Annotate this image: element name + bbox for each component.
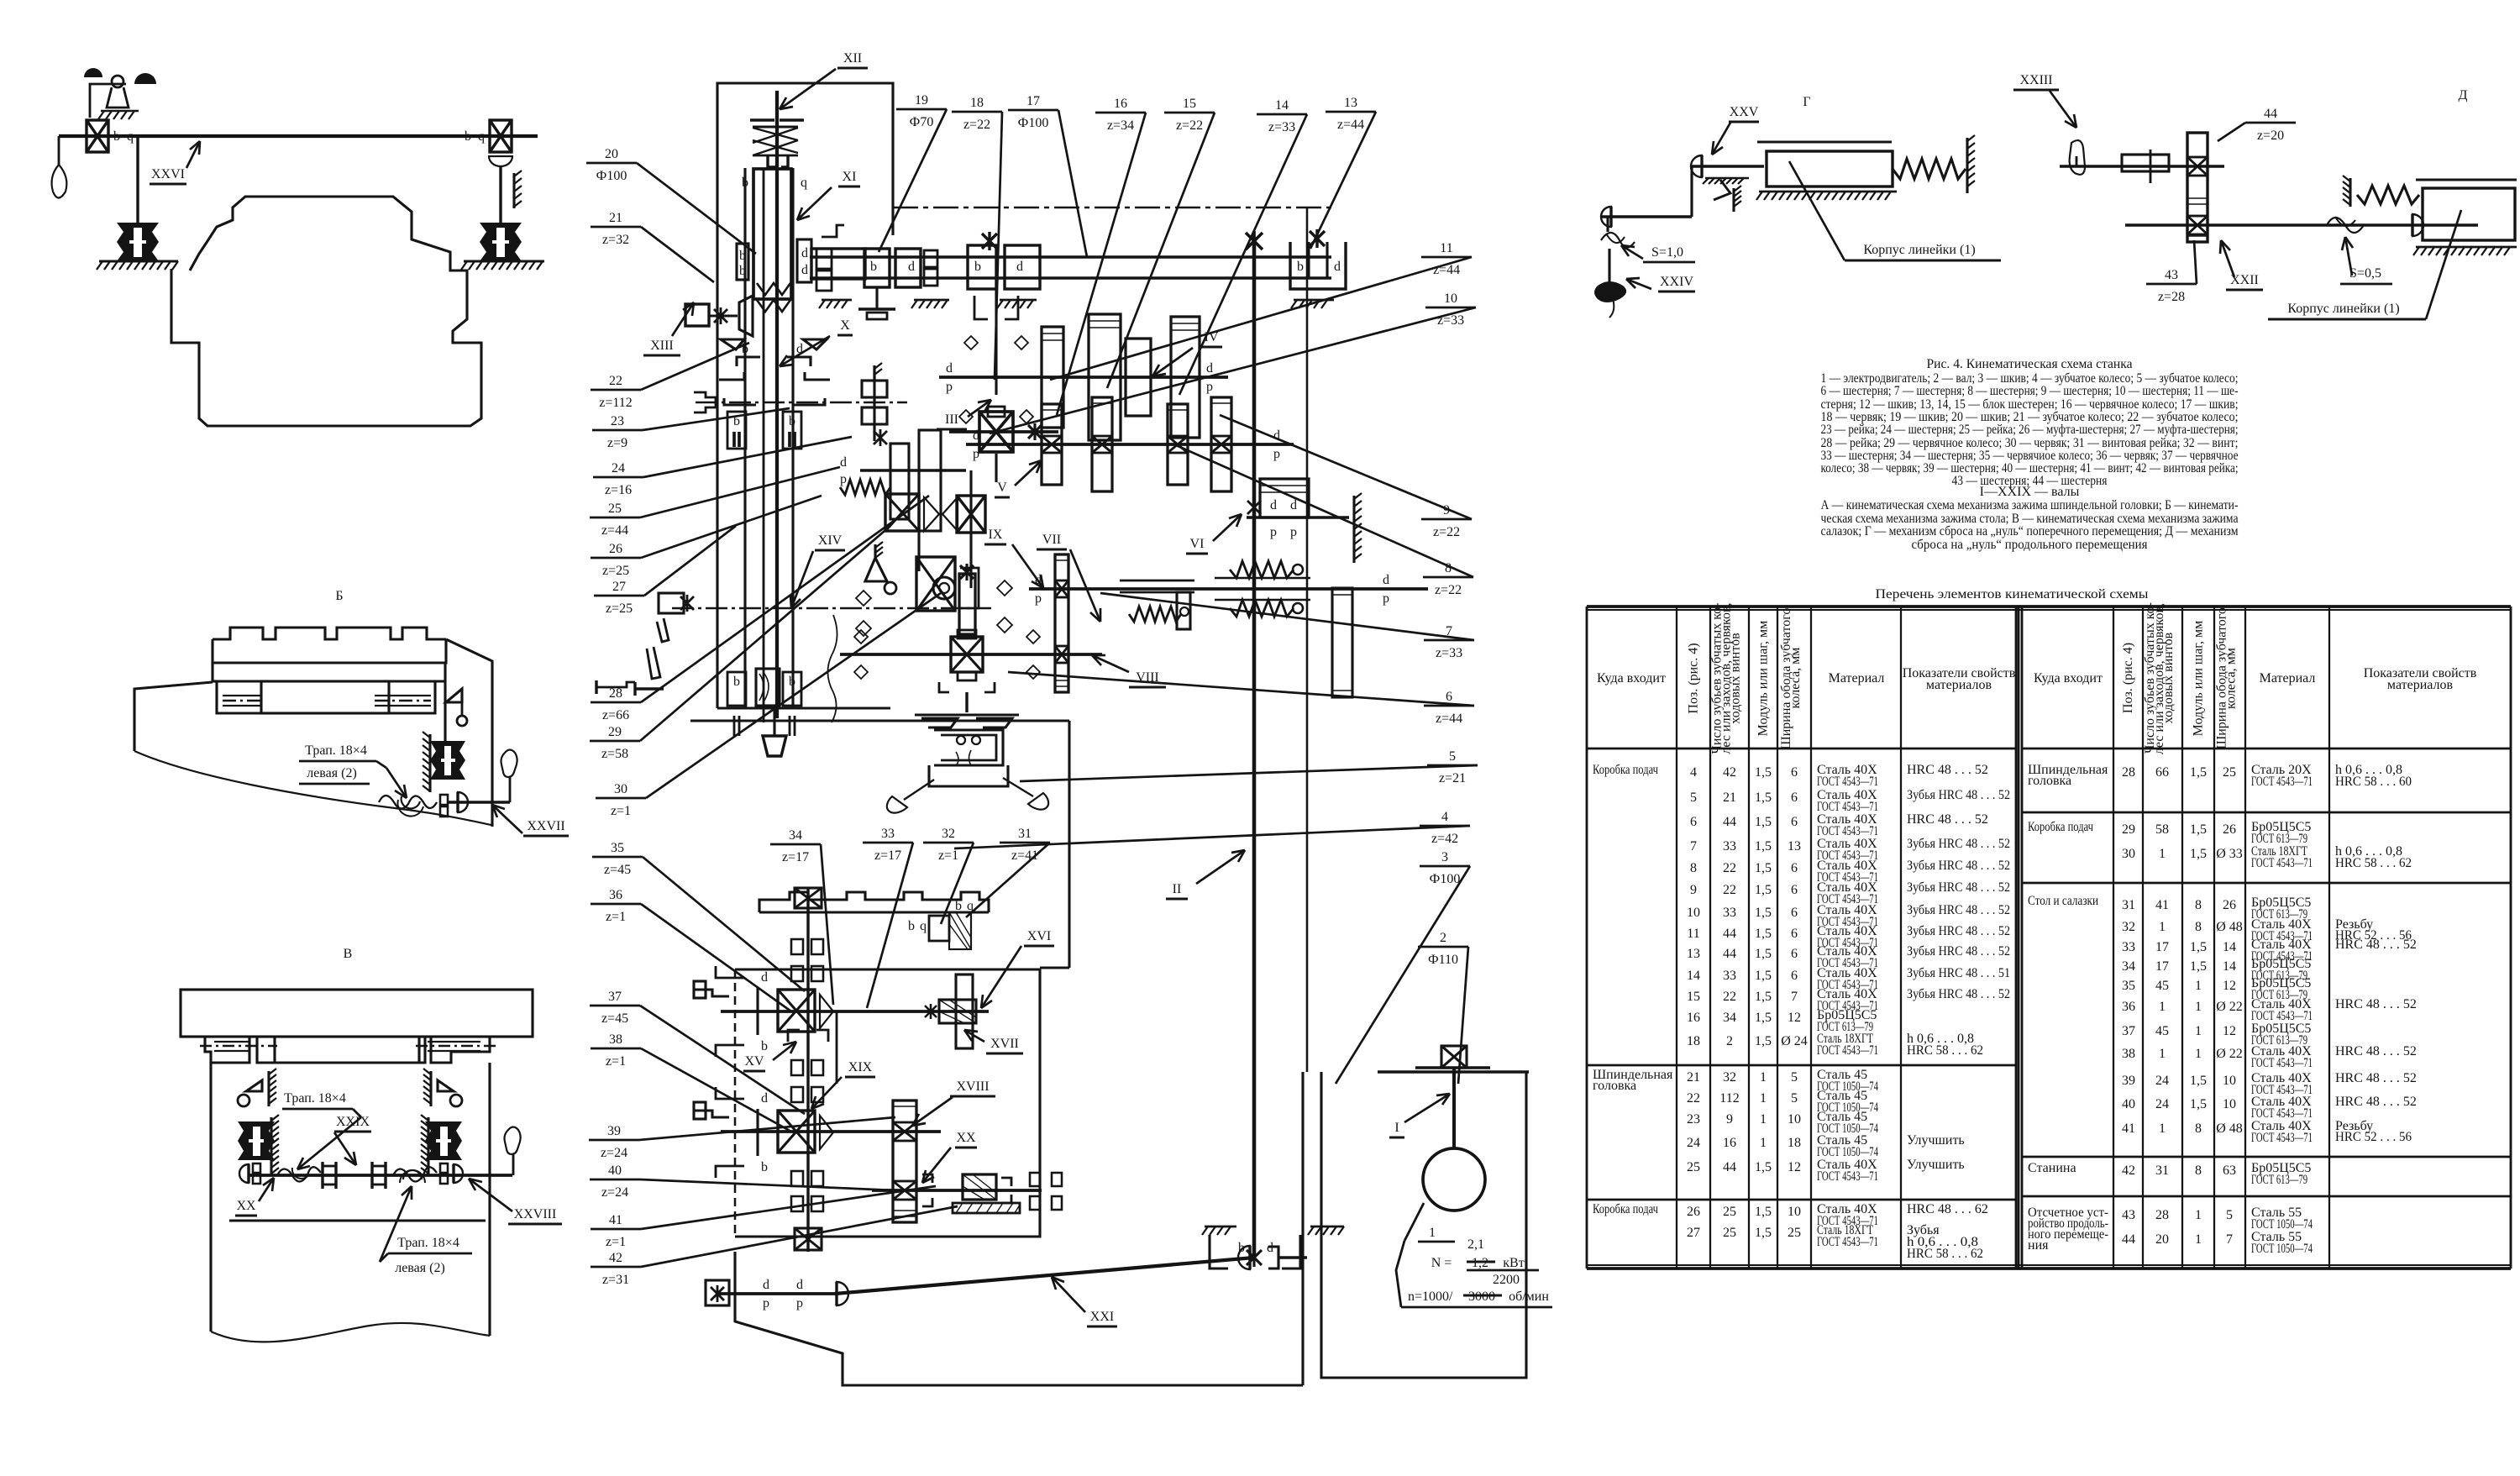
- svg-text:HRC 48 . . . 52: HRC 48 . . . 52: [2335, 997, 2417, 1011]
- svg-text:z=112: z=112: [599, 396, 633, 410]
- handle Д: [2070, 140, 2085, 175]
- svg-text:5: 5: [2226, 1208, 2233, 1222]
- vertical screw right: [499, 166, 501, 223]
- pulley 20 bearings: [737, 244, 748, 280]
- body outline wavy Б: [134, 751, 491, 825]
- quill block: [753, 169, 791, 299]
- svg-text:31: 31: [2122, 898, 2135, 912]
- svg-text:Коробка подач: Коробка подач: [2028, 820, 2093, 834]
- gear VI block: [1260, 479, 1309, 517]
- svg-text:HRC 48 . . . 52: HRC 48 . . . 52: [1907, 763, 1988, 777]
- svg-text:p: p: [1035, 591, 1042, 606]
- svg-text:VII: VII: [1042, 533, 1061, 547]
- svg-text:34: 34: [2122, 959, 2135, 974]
- svg-text:1: 1: [2159, 1000, 2166, 1014]
- clamp wall hatch Б: [428, 734, 431, 792]
- drill chuck: [763, 736, 786, 756]
- svg-text:21: 21: [1687, 1070, 1700, 1085]
- shaft VIII: [840, 653, 1102, 656]
- svg-text:1,5: 1,5: [1755, 927, 1772, 941]
- vertical quill IX: [959, 574, 975, 634]
- svg-text:VI: VI: [1190, 537, 1205, 551]
- svg-text:Рис. 4. Кинематическая схема с: Рис. 4. Кинематическая схема станка: [1927, 357, 2133, 371]
- knee frame outline: [690, 719, 1069, 722]
- shaft IV: [939, 376, 1228, 379]
- svg-text:1: 1: [2195, 1232, 2202, 1247]
- motor pulley bar: [1378, 1070, 1529, 1073]
- right clamp springs В: [425, 1121, 462, 1160]
- svg-text:b: b: [1297, 260, 1304, 274]
- svg-text:p: p: [763, 1296, 769, 1311]
- svg-text:d: d: [763, 1278, 769, 1292]
- table cross-section top: [759, 892, 989, 912]
- svg-text:Зубья HRC 48 . . . 51: Зубья HRC 48 . . . 51: [1907, 966, 2010, 980]
- svg-text:24: 24: [2155, 1097, 2169, 1111]
- svg-text:II: II: [1173, 882, 1182, 896]
- svg-text:26: 26: [609, 542, 622, 556]
- svg-text:ГОСТ 4543—71: ГОСТ 4543—71: [2251, 856, 2313, 870]
- svg-text:q: q: [801, 176, 807, 190]
- svg-text:41: 41: [2155, 898, 2169, 912]
- svg-text:1,5: 1,5: [2190, 1097, 2207, 1111]
- svg-text:14: 14: [2223, 940, 2236, 954]
- svg-text:16: 16: [1723, 1136, 1736, 1150]
- svg-text:1,5: 1,5: [1755, 1226, 1772, 1240]
- svg-text:25: 25: [2223, 765, 2236, 780]
- svg-text:Д: Д: [2459, 88, 2468, 102]
- right bearing В: [440, 1163, 448, 1173]
- svg-text:Ø 48: Ø 48: [2216, 920, 2243, 934]
- svg-text:z=28: z=28: [2158, 290, 2185, 304]
- svg-text:b: b: [974, 260, 981, 274]
- svg-text:22: 22: [1723, 861, 1736, 875]
- worm cluster XIX: [778, 1111, 815, 1153]
- svg-text:27: 27: [1687, 1226, 1700, 1240]
- table group separators: [1587, 1064, 2016, 1067]
- svg-text:32: 32: [942, 827, 955, 841]
- svg-text:10: 10: [1788, 1112, 1801, 1127]
- worm 18 vertical: [995, 289, 997, 395]
- vertical screw left: [136, 136, 139, 223]
- svg-text:1: 1: [1760, 1112, 1767, 1127]
- svg-text:33: 33: [1723, 969, 1736, 983]
- svg-text:Зубья HRC 48 . . . 52: Зубья HRC 48 . . . 52: [1907, 903, 2010, 917]
- svg-text:z=24: z=24: [601, 1146, 627, 1160]
- lever mechanism top-left: [90, 84, 126, 118]
- svg-text:p: p: [1270, 525, 1277, 539]
- svg-text:b: b: [465, 129, 471, 144]
- svg-text:z=22: z=22: [1433, 525, 1460, 539]
- svg-text:9: 9: [1726, 1112, 1733, 1127]
- gear block left on XXVI: [87, 120, 108, 152]
- svg-text:Станина: Станина: [2028, 1161, 2076, 1175]
- svg-text:Куда входит: Куда входит: [1597, 671, 1666, 685]
- table header separators: [1587, 748, 2016, 750]
- right clamp lever В: [438, 1080, 454, 1091]
- svg-text:XXIII: XXIII: [2019, 73, 2052, 87]
- svg-text:30: 30: [614, 782, 627, 796]
- svg-text:39: 39: [2122, 1074, 2135, 1088]
- svg-text:1,5: 1,5: [1755, 861, 1772, 875]
- svg-text:10: 10: [2223, 1097, 2236, 1111]
- svg-text:1,5: 1,5: [1755, 947, 1772, 961]
- svg-text:15: 15: [1183, 97, 1196, 111]
- pulley block 19: [864, 249, 890, 287]
- svg-text:Стол и салазки: Стол и салазки: [2028, 894, 2098, 908]
- spindle head frame: [717, 83, 893, 708]
- svg-text:Ø 22: Ø 22: [2216, 1000, 2243, 1014]
- svg-text:1: 1: [1760, 1091, 1767, 1106]
- svg-text:Ø 48: Ø 48: [2216, 1121, 2243, 1136]
- svg-text:41: 41: [609, 1213, 622, 1227]
- svg-text:22: 22: [1687, 1091, 1700, 1106]
- svg-text:z=66: z=66: [602, 708, 629, 722]
- svg-text:z=44: z=44: [601, 523, 628, 538]
- svg-text:Зубья HRC 48 . . . 52: Зубья HRC 48 . . . 52: [1907, 924, 2010, 938]
- svg-text:1,5: 1,5: [1755, 1034, 1772, 1048]
- ground hatch right: [464, 260, 544, 262]
- belt XXI: [835, 1258, 1254, 1294]
- svg-text:28: 28: [2155, 1208, 2169, 1222]
- svg-text:4: 4: [1690, 765, 1697, 780]
- svg-text:b: b: [789, 675, 795, 689]
- svg-text:d: d: [908, 260, 915, 274]
- svg-text:I—XXIX — валы: I—XXIX — валы: [1980, 485, 2080, 499]
- svg-text:z=44: z=44: [1337, 118, 1364, 132]
- motor label 1 and specs: [1404, 1203, 1424, 1241]
- svg-text:11: 11: [1440, 241, 1452, 255]
- svg-text:b: b: [739, 249, 746, 263]
- svg-text:22: 22: [1723, 990, 1736, 1004]
- svg-text:b: b: [870, 260, 877, 274]
- svg-text:Ø 33: Ø 33: [2216, 847, 2243, 861]
- svg-text:XXV: XXV: [1730, 105, 1759, 119]
- svg-text:Ø 24: Ø 24: [1781, 1034, 1808, 1048]
- gear box on XIV mid: [916, 557, 955, 611]
- svg-text:d: d: [801, 263, 808, 277]
- svg-text:ходовых винтов: ходовых винтов: [2161, 632, 2176, 723]
- svg-text:1,5: 1,5: [1755, 969, 1772, 983]
- svg-text:15: 15: [1687, 990, 1700, 1004]
- screw wavy left В: [277, 1167, 321, 1181]
- svg-text:HRC 48 . . . 52: HRC 48 . . . 52: [1907, 812, 1988, 827]
- svg-text:2: 2: [1440, 931, 1446, 945]
- svg-text:b: b: [733, 675, 740, 689]
- svg-text:Поз. (рис. 4): Поз. (рис. 4): [2121, 643, 2135, 713]
- svg-text:d: d: [1290, 498, 1297, 512]
- svg-text:1,5: 1,5: [1755, 839, 1772, 854]
- svg-text:z=1: z=1: [938, 848, 958, 863]
- spring Д: [2357, 186, 2419, 204]
- svg-text:S=0,5: S=0,5: [2349, 266, 2381, 281]
- chevrons on spindle: [757, 283, 790, 295]
- svg-text:2: 2: [1726, 1034, 1733, 1048]
- svg-text:1: 1: [1429, 1226, 1436, 1240]
- svg-text:33: 33: [2122, 940, 2135, 954]
- svg-text:28: 28: [2122, 765, 2135, 780]
- svg-text:42: 42: [1723, 765, 1736, 780]
- svg-text:XXVIII: XXVIII: [514, 1207, 557, 1221]
- svg-text:X: X: [840, 318, 850, 333]
- svg-text:7: 7: [1690, 839, 1697, 854]
- svg-text:XI: XI: [843, 170, 857, 184]
- svg-text:25: 25: [1788, 1226, 1801, 1240]
- svg-text:Зубья HRC 48 . . . 52: Зубья HRC 48 . . . 52: [1907, 880, 2010, 895]
- svg-text:1,5: 1,5: [1755, 1160, 1772, 1174]
- gear 44 vertical Д: [2187, 133, 2208, 242]
- svg-text:34: 34: [789, 828, 802, 843]
- svg-text:Зубья HRC 48 . . . 52: Зубья HRC 48 . . . 52: [1907, 859, 2010, 873]
- X shaft axis dash-dot: [696, 402, 907, 404]
- clamp spring pack left: [117, 223, 159, 261]
- svg-text:22: 22: [609, 374, 622, 388]
- svg-text:11: 11: [1687, 927, 1699, 941]
- svg-text:63: 63: [2223, 1163, 2236, 1178]
- svg-text:1: 1: [1760, 1136, 1767, 1150]
- svg-text:HRC 58 . . . 60: HRC 58 . . . 60: [2335, 775, 2412, 789]
- svg-text:43: 43: [2165, 268, 2178, 282]
- vertical link Г: [1690, 166, 1693, 217]
- coupling ticks В: [321, 1162, 323, 1189]
- svg-text:S=1,0: S=1,0: [1651, 245, 1683, 260]
- svg-text:колеса, мм: колеса, мм: [2224, 648, 2239, 709]
- svg-text:z=17: z=17: [782, 850, 809, 864]
- cone clutch Д: [2412, 214, 2423, 236]
- screw pair on X axis: [862, 381, 887, 397]
- axis Г: [1690, 165, 1764, 167]
- svg-text:головка: головка: [1593, 1079, 1636, 1093]
- table verticals: [1586, 607, 1588, 1269]
- saddle top bar В: [181, 990, 533, 1037]
- svg-text:Коробка подач: Коробка подач: [1593, 763, 1658, 777]
- svg-text:38: 38: [609, 1032, 622, 1047]
- svg-text:III: III: [945, 412, 958, 427]
- svg-text:кВт: кВт: [1503, 1256, 1524, 1270]
- svg-text:1: 1: [2195, 979, 2202, 993]
- svg-text:45: 45: [2155, 1024, 2169, 1038]
- left clamp springs В: [238, 1121, 275, 1160]
- svg-text:35: 35: [2122, 979, 2135, 993]
- svg-text:44: 44: [2122, 1232, 2135, 1247]
- svg-text:Зубья HRC 48 . . . 52: Зубья HRC 48 . . . 52: [1907, 788, 2010, 802]
- svg-text:HRC 58 . . . 62: HRC 58 . . . 62: [1907, 1247, 1983, 1261]
- XIV axis dash-dot: [672, 607, 991, 610]
- svg-text:d: d: [1016, 260, 1023, 274]
- svg-text:30: 30: [2122, 847, 2135, 861]
- bell mouth under right gear: [489, 156, 512, 166]
- svg-text:20: 20: [605, 147, 618, 161]
- svg-text:3: 3: [1441, 850, 1448, 864]
- svg-text:z=22: z=22: [963, 118, 990, 132]
- spring Г: [1893, 159, 1966, 179]
- horizontal rod Г: [1600, 215, 1692, 218]
- svg-text:1,5: 1,5: [1755, 765, 1772, 780]
- svg-text:8: 8: [2195, 898, 2202, 912]
- svg-text:6: 6: [1446, 690, 1452, 704]
- svg-text:31: 31: [2155, 1163, 2169, 1178]
- svg-text:b: b: [739, 264, 746, 278]
- svg-text:Ф110: Ф110: [1428, 953, 1458, 967]
- lead screw 31/32 block: [929, 916, 949, 941]
- svg-text:XIV: XIV: [818, 533, 843, 548]
- left clamp lever В: [246, 1080, 262, 1091]
- svg-text:z=34: z=34: [1107, 118, 1134, 133]
- svg-text:32: 32: [2122, 920, 2135, 934]
- svg-text:58: 58: [2155, 822, 2169, 837]
- svg-text:29: 29: [2122, 822, 2135, 837]
- diagram A frame: machine silhouette: [171, 197, 481, 426]
- svg-text:z=20: z=20: [2257, 129, 2284, 143]
- long shaft II vertical: [1252, 241, 1257, 1258]
- svg-text:XVI: XVI: [1027, 929, 1051, 943]
- svg-text:1: 1: [2195, 1208, 2202, 1222]
- svg-text:26: 26: [2223, 822, 2236, 837]
- svg-text:p: p: [1206, 380, 1213, 394]
- svg-text:19: 19: [915, 93, 928, 108]
- table cross-section Б slotted top: [213, 628, 446, 639]
- spindle spring top: [750, 118, 774, 121]
- svg-text:ГОСТ 4543—71: ГОСТ 4543—71: [1817, 775, 1878, 789]
- svg-text:40: 40: [2122, 1097, 2135, 1111]
- handle knob Б: [501, 750, 517, 778]
- svg-text:13: 13: [1687, 947, 1700, 961]
- slider body Г korpus lineiki: [1767, 151, 1893, 186]
- left pulley of belt: [716, 1292, 837, 1295]
- svg-text:p: p: [1273, 447, 1280, 461]
- svg-text:14: 14: [1687, 969, 1700, 983]
- svg-text:14: 14: [1275, 98, 1289, 113]
- svg-text:XX: XX: [236, 1199, 256, 1213]
- shaft VII with springs: [1029, 587, 1428, 591]
- shaft XIX: [721, 1130, 941, 1133]
- svg-text:Материал: Материал: [2260, 671, 2316, 685]
- svg-text:27: 27: [612, 580, 626, 594]
- svg-text:7: 7: [1791, 990, 1798, 1004]
- svg-text:12: 12: [1788, 1160, 1801, 1174]
- motor shaft vertical: [1452, 1068, 1456, 1149]
- svg-text:18: 18: [1687, 1034, 1700, 1048]
- svg-text:z=32: z=32: [602, 233, 629, 247]
- svg-text:1,5: 1,5: [1755, 906, 1772, 920]
- svg-text:26: 26: [2223, 898, 2236, 912]
- svg-text:об/мин: об/мин: [1509, 1290, 1549, 1304]
- svg-text:XIII: XIII: [650, 339, 674, 353]
- svg-text:38: 38: [2122, 1047, 2135, 1061]
- svg-text:XIX: XIX: [848, 1060, 873, 1074]
- svg-text:14: 14: [2223, 959, 2236, 974]
- svg-text:16: 16: [1687, 1011, 1700, 1025]
- svg-text:HRC 48 . . . 52: HRC 48 . . . 52: [2335, 1044, 2417, 1058]
- svg-text:12: 12: [2223, 1024, 2236, 1038]
- bevel box IX on VIII: [951, 637, 983, 672]
- svg-text:36: 36: [2122, 1000, 2135, 1014]
- svg-text:b: b: [789, 414, 795, 428]
- svg-text:ГОСТ 4543—71: ГОСТ 4543—71: [1817, 1235, 1878, 1249]
- bottom wavy break В: [211, 1323, 490, 1342]
- svg-text:66: 66: [2155, 765, 2169, 780]
- svg-text:XV: XV: [744, 1054, 764, 1069]
- svg-text:q: q: [478, 129, 485, 144]
- svg-text:1: 1: [2159, 847, 2166, 861]
- svg-text:d: d: [801, 246, 808, 260]
- vertical shaft left of XVI: [806, 888, 809, 1252]
- svg-text:40: 40: [608, 1163, 622, 1178]
- screw wavy right В: [393, 1167, 437, 1181]
- svg-text:17: 17: [2155, 940, 2169, 954]
- svg-text:29: 29: [608, 725, 622, 739]
- svg-text:d: d: [973, 428, 979, 443]
- knee saddle cluster gears: [890, 444, 909, 519]
- svg-text:салазок; Г — механизм сброса: салазок; Г — механизм сброса на „нуль“ п…: [1821, 524, 2239, 538]
- svg-text:p: p: [973, 447, 979, 461]
- guideway box Б: [217, 681, 435, 713]
- svg-text:XXVI: XXVI: [151, 167, 185, 181]
- svg-text:z=22: z=22: [1435, 583, 1462, 597]
- svg-text:z=1: z=1: [606, 910, 626, 924]
- svg-text:1,5: 1,5: [1755, 990, 1772, 1004]
- shaft XV: [721, 1010, 989, 1013]
- gear column VII-VIII: [1055, 554, 1068, 692]
- svg-text:1: 1: [2159, 920, 2166, 934]
- wire: left drop to plumb: [58, 136, 60, 165]
- svg-text:материалов: материалов: [1926, 678, 1992, 692]
- svg-text:6: 6: [1791, 969, 1798, 983]
- svg-text:6: 6: [1791, 947, 1798, 961]
- screw stubs dash-dot Б: [223, 700, 261, 702]
- svg-text:z=58: z=58: [601, 747, 628, 761]
- svg-text:левая (2): левая (2): [395, 1261, 445, 1275]
- svg-text:сброса на „нуль“ продольног: сброса на „нуль“ продольного перемещения: [1912, 538, 2149, 552]
- svg-text:d: d: [1206, 361, 1213, 376]
- svg-text:b: b: [761, 1160, 768, 1174]
- svg-text:17: 17: [1026, 94, 1040, 108]
- svg-text:35: 35: [611, 841, 624, 855]
- svg-text:1,5: 1,5: [2190, 940, 2207, 954]
- svg-text:24: 24: [2155, 1074, 2169, 1088]
- svg-text:Зубья HRC 48 . . . 52: Зубья HRC 48 . . . 52: [1907, 987, 2010, 1001]
- svg-text:XXIV: XXIV: [1660, 275, 1693, 289]
- svg-text:d: d: [946, 361, 953, 376]
- svg-text:левая (2): левая (2): [307, 766, 357, 780]
- svg-text:z=17: z=17: [874, 848, 901, 863]
- svg-text:44: 44: [2264, 107, 2277, 121]
- svg-text:112: 112: [1719, 1091, 1739, 1106]
- clutch XIII group: [685, 304, 709, 326]
- svg-text:p: p: [946, 380, 953, 394]
- svg-text:18: 18: [970, 96, 984, 110]
- svg-text:Перечень элементов кинематичес: Перечень элементов кинематической схемы: [1876, 587, 2149, 601]
- bearings right XX: [1030, 1173, 1040, 1186]
- svg-text:ГОСТ 1050—74: ГОСТ 1050—74: [2251, 1242, 2313, 1256]
- svg-text:XX: XX: [956, 1131, 976, 1145]
- svg-text:44: 44: [1723, 1160, 1736, 1174]
- tall gear right of VII: [1332, 588, 1352, 697]
- svg-text:8: 8: [1445, 561, 1452, 575]
- ground hatch left: [99, 260, 178, 262]
- left wing Б: [134, 682, 213, 751]
- shaft XXIX В: [249, 1174, 512, 1177]
- ground hatch under slider Г: [1759, 191, 1897, 193]
- svg-text:7: 7: [2226, 1232, 2233, 1247]
- svg-text:44: 44: [1723, 815, 1736, 829]
- svg-text:z=45: z=45: [604, 863, 631, 877]
- diamond rollers XIV: [856, 591, 871, 606]
- svg-text:36: 36: [609, 888, 622, 902]
- spindle vertical lines: [743, 168, 746, 708]
- svg-text:17: 17: [2155, 959, 2169, 974]
- svg-text:41: 41: [2122, 1121, 2135, 1136]
- svg-text:HRC 58 . . . 62: HRC 58 . . . 62: [2335, 856, 2412, 870]
